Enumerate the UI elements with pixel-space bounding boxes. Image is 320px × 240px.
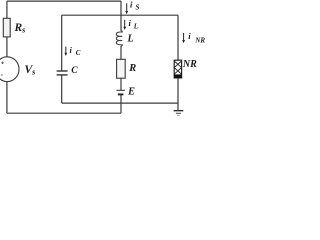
svg-text:i: i — [70, 45, 73, 55]
svg-text:C: C — [76, 49, 81, 57]
svg-text:Rs: Rs — [14, 22, 26, 35]
svg-text:L: L — [127, 33, 134, 44]
svg-text:i: i — [130, 0, 133, 10]
svg-text:L: L — [133, 22, 138, 30]
svg-text:E: E — [127, 87, 135, 98]
svg-text:S: S — [136, 4, 140, 12]
svg-text:i: i — [188, 31, 191, 41]
svg-text:C: C — [71, 66, 78, 76]
svg-text:NR: NR — [194, 36, 205, 44]
svg-text:i: i — [129, 18, 132, 28]
svg-text:R: R — [128, 63, 136, 74]
svg-text:NR: NR — [182, 59, 197, 70]
svg-text:Vs: Vs — [25, 64, 36, 77]
